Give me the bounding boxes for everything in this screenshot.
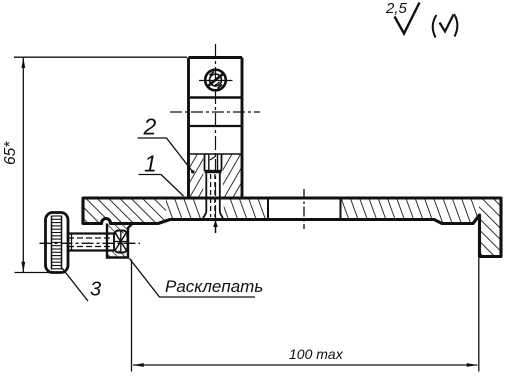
bracket under plate left xyxy=(107,224,133,258)
plate hatching xyxy=(83,196,503,258)
column vertical centerline xyxy=(215,44,217,233)
plate slot window edges xyxy=(268,198,341,220)
leader label 1 xyxy=(139,175,184,197)
svg-text:65*: 65* xyxy=(2,141,19,165)
screw shaft xyxy=(68,234,114,251)
knob knurling ticks xyxy=(52,216,62,269)
svg-text:1: 1 xyxy=(144,151,157,177)
svg-text:2,5: 2,5 xyxy=(385,0,408,17)
column top hole circle xyxy=(205,70,226,91)
svg-text:100 max: 100 max xyxy=(289,346,344,362)
base plate part 1 outline xyxy=(83,198,501,257)
slot centerline xyxy=(303,189,305,229)
riveted screw end (starburst) xyxy=(114,231,128,253)
svg-text:Расклепать: Расклепать xyxy=(165,277,263,296)
bracket hatching xyxy=(106,223,134,259)
rivet note leader xyxy=(130,259,256,298)
roughness in parentheses xyxy=(433,14,458,38)
leader label 2 xyxy=(138,138,195,174)
column hatching xyxy=(188,153,243,199)
leader label 3 xyxy=(62,268,88,301)
circle horizontal centerline xyxy=(199,80,233,82)
column part 2 outline xyxy=(189,58,243,199)
svg-text:2: 2 xyxy=(143,114,157,140)
svg-text:3: 3 xyxy=(90,279,101,301)
knurled screw part 3: knob xyxy=(46,213,69,273)
rivet center mark below plate xyxy=(213,220,218,234)
screw axis centerline xyxy=(40,242,141,244)
roughness symbol 2,5 xyxy=(395,3,420,34)
central screw in counterbore xyxy=(202,154,223,220)
dimension 65 star xyxy=(14,57,187,272)
column horizontal dash-dot centerline xyxy=(170,111,260,113)
column section lines xyxy=(189,98,243,155)
dimension 100 max xyxy=(132,258,479,372)
